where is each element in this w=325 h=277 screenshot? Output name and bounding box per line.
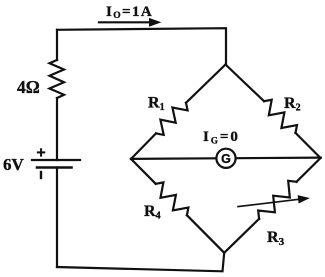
- svg-text:4Ω: 4Ω: [17, 77, 40, 97]
- svg-text:G: G: [221, 152, 231, 166]
- svg-text:IG=0: IG=0: [203, 129, 240, 146]
- svg-text:6V: 6V: [3, 155, 25, 174]
- svg-text:R3: R3: [267, 229, 285, 248]
- svg-text:+: +: [36, 145, 45, 162]
- svg-text:R1: R1: [148, 95, 165, 114]
- svg-text:R4: R4: [144, 203, 161, 222]
- svg-text:R2: R2: [284, 95, 301, 114]
- svg-text:IO=1A: IO=1A: [106, 4, 153, 21]
